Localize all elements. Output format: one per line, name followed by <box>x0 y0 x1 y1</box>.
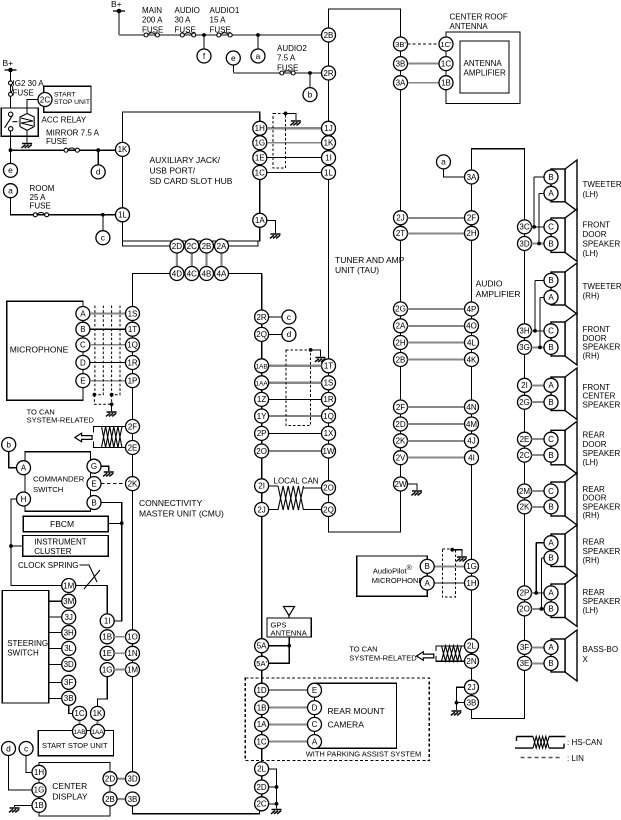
microphone pin B <box>76 322 90 336</box>
svg-text:1A: 1A <box>255 216 265 225</box>
svg-text:2C: 2C <box>40 95 50 104</box>
connector 1C <box>439 57 453 71</box>
shield audiopilot cable <box>442 549 455 597</box>
wire e down <box>232 65 234 73</box>
svg-text:A: A <box>312 737 318 746</box>
wire 1AB-1T <box>269 365 322 367</box>
svg-text:2W: 2W <box>395 480 407 489</box>
svg-text:3E: 3E <box>520 659 530 668</box>
svg-text:2R: 2R <box>256 313 266 322</box>
svg-text:TUNER AND AMPUNIT (TAU): TUNER AND AMPUNIT (TAU) <box>335 255 405 275</box>
wire TAU-AMP link <box>408 457 465 459</box>
connector 2N <box>465 654 479 668</box>
svg-text:1D: 1D <box>256 686 266 695</box>
svg-text:1AA: 1AA <box>256 381 269 388</box>
svg-text:AUDIO115 AFUSE: AUDIO115 AFUSE <box>210 6 240 34</box>
wire 2F to CAN <box>93 427 125 433</box>
svg-text:1S: 1S <box>128 309 138 318</box>
svg-text:e: e <box>231 53 236 63</box>
wire 1Y-1Q <box>269 415 322 417</box>
wire 3B stub <box>457 702 465 704</box>
wire steering stub 3H <box>49 632 62 634</box>
wire amp-speaker link <box>532 506 545 508</box>
connector 3D <box>126 772 140 786</box>
junction tweeter RH A tap <box>538 346 542 350</box>
wire CMU left edge <box>132 274 134 779</box>
speaker pin C <box>544 484 558 498</box>
wire amp-speaker link <box>532 330 545 332</box>
svg-text:2I: 2I <box>258 482 265 491</box>
svg-text:3H: 3H <box>519 327 529 336</box>
speaker pin A <box>544 536 558 550</box>
connector 2R <box>255 310 269 324</box>
wire 1C-1L <box>267 172 322 174</box>
pair bar 2B-4B <box>205 253 207 267</box>
svg-text:MAIN200 AFUSE: MAIN200 AFUSE <box>142 6 163 34</box>
svg-text:2P: 2P <box>520 589 530 598</box>
svg-text:2H: 2H <box>466 229 476 238</box>
speaker pin B <box>544 340 558 354</box>
wire TAU-AMP link <box>408 308 465 310</box>
connector 4C <box>185 267 199 281</box>
pair bar 2B-3B <box>117 798 126 800</box>
connector 3A <box>394 76 408 90</box>
ground 2W <box>411 491 422 495</box>
junction 2C ground <box>275 802 279 806</box>
connector 1C <box>73 706 87 720</box>
connector 1E <box>253 151 267 165</box>
wire shield ground (audiopilot) <box>452 550 462 556</box>
svg-text:E: E <box>91 479 96 488</box>
ground 1B center display <box>9 808 20 812</box>
wire tap to rear RH B <box>541 557 544 559</box>
svg-text:1AB: 1AB <box>256 364 268 371</box>
junction mic shield drain <box>110 402 114 406</box>
svg-text:2E: 2E <box>520 435 530 444</box>
junction c tap <box>101 213 105 217</box>
connector 4J <box>465 434 479 448</box>
speaker pin B <box>544 395 558 409</box>
wire steering stub 3M <box>49 600 62 602</box>
svg-text:2D: 2D <box>256 783 266 792</box>
svg-text:2P: 2P <box>257 429 267 438</box>
boundary WITH PARKING ASSIST SYSTEM <box>245 678 429 761</box>
connector 3H <box>518 324 532 338</box>
svg-text:: LIN: : LIN <box>567 754 584 763</box>
connector 1H <box>465 576 479 590</box>
svg-text:2B: 2B <box>105 795 115 804</box>
svg-text:2K: 2K <box>520 503 530 512</box>
wire 2D stub <box>269 786 277 788</box>
microphone pin C <box>76 338 90 352</box>
svg-text:FRONTCENTERSPEAKER: FRONTCENTERSPEAKER <box>583 383 621 410</box>
svg-text:3B': 3B' <box>395 40 406 49</box>
speaker pin B <box>544 656 558 670</box>
wire 1D-E <box>269 689 308 691</box>
commander pin H <box>17 492 31 506</box>
speaker pin A <box>544 290 558 304</box>
svg-text:4P: 4P <box>467 305 477 314</box>
commander pin B <box>87 496 101 510</box>
svg-text:b: b <box>308 89 313 99</box>
connector 1AA <box>91 724 105 738</box>
junction rear RH B tap <box>540 607 544 611</box>
svg-text:3L: 3L <box>64 644 73 653</box>
svg-text:3B: 3B <box>396 59 406 68</box>
svg-text:ANTENNAAMPLIFIER: ANTENNAAMPLIFIER <box>464 59 506 78</box>
wire 1B-1O <box>114 636 125 638</box>
svg-text:5A: 5A <box>257 642 267 651</box>
junction shield drain (audiopilot) <box>450 548 454 552</box>
svg-text:2D: 2D <box>172 242 182 251</box>
wire to node b <box>309 73 311 88</box>
svg-text:1L: 1L <box>324 168 333 177</box>
connector 1Q <box>126 338 140 352</box>
wire steering stub 3D <box>49 663 62 665</box>
pair bar 2D-3D <box>117 778 126 780</box>
connector 2E <box>518 432 532 446</box>
svg-text:1T: 1T <box>324 362 333 371</box>
fuse AUDIO 30A <box>180 33 195 37</box>
fuse IG2 30A <box>9 81 13 96</box>
svg-text:2H: 2H <box>395 338 405 347</box>
wire 2J to twisted pair <box>269 509 278 511</box>
relay switch contact <box>5 112 19 131</box>
wire 2L ground run <box>269 769 277 809</box>
twisted pair LOCAL CAN <box>278 486 304 510</box>
svg-text:AUDIO30 AFUSE: AUDIO30 AFUSE <box>175 6 200 34</box>
legend LIN symbol <box>521 757 560 759</box>
svg-text:CENTER ROOFANTENNA: CENTER ROOFANTENNA <box>450 13 508 32</box>
wire TAU-AMP link <box>408 423 465 425</box>
camera pin A <box>308 735 322 749</box>
svg-text:3J: 3J <box>64 613 72 622</box>
connector 1Y <box>255 409 269 423</box>
box START STOP UNIT (lower) <box>38 731 113 756</box>
svg-text:A: A <box>548 293 554 302</box>
junction shield drain (cmu-tau) <box>309 348 313 352</box>
svg-text:A: A <box>548 189 554 198</box>
svg-text:e: e <box>8 165 13 175</box>
svg-text:1C: 1C <box>74 709 84 718</box>
camera pin C <box>308 717 322 731</box>
connector 2F <box>126 420 140 434</box>
unit INSTRUMENT CLUSTER <box>23 535 109 556</box>
wire amp-speaker link <box>532 662 545 664</box>
ground 1A <box>270 234 281 238</box>
svg-text:ROOM25 AFUSE: ROOM25 AFUSE <box>30 184 55 211</box>
connector 1B <box>255 701 269 715</box>
wire to node a <box>257 35 259 49</box>
svg-text:1AB: 1AB <box>73 729 85 736</box>
svg-text:1J: 1J <box>324 124 332 133</box>
svg-text:2J: 2J <box>467 683 475 692</box>
svg-text:1C: 1C <box>256 737 266 746</box>
connector 2I <box>255 479 269 493</box>
svg-text:2C: 2C <box>256 800 266 809</box>
steering pin 3B <box>62 691 76 705</box>
ground mic shield <box>106 412 117 416</box>
node b <box>303 88 317 102</box>
connector 1L <box>116 208 130 222</box>
connector 1C' <box>439 37 453 51</box>
svg-text:1T: 1T <box>128 325 137 334</box>
antenna symbol GPS <box>284 607 295 619</box>
junction a tap <box>256 33 260 37</box>
svg-text:CONNECTIVITYMASTER UNIT (CMU): CONNECTIVITYMASTER UNIT (CMU) <box>139 498 224 519</box>
wire 1C-A <box>269 741 308 743</box>
wire b to A <box>9 452 17 468</box>
unit MICROPHONE <box>7 301 83 400</box>
svg-text:B: B <box>548 554 553 563</box>
wire G to ground <box>101 466 109 471</box>
svg-text:B: B <box>548 276 553 285</box>
wire 2W to ground <box>408 484 418 490</box>
connector 2F <box>394 400 408 414</box>
svg-text:3A: 3A <box>467 173 477 182</box>
node c <box>96 231 110 245</box>
camera pin D <box>308 701 322 715</box>
connector 1A <box>253 213 267 227</box>
svg-text:2C: 2C <box>187 242 197 251</box>
speaker TWEETER (LH) <box>551 160 577 211</box>
svg-text:1C: 1C <box>441 59 451 68</box>
audiopilot pin A <box>420 576 434 590</box>
unit AUDIO AMPLIFIER <box>472 149 525 719</box>
wire B-1G audiopilot <box>434 565 464 567</box>
wire TAU-AMP link <box>408 217 465 219</box>
svg-text:2B: 2B <box>202 242 212 251</box>
junction FBCM <box>120 521 124 525</box>
svg-text:MICROPHONE: MICROPHONE <box>10 345 69 355</box>
wire to node d <box>97 150 99 165</box>
connector 4P <box>465 302 479 316</box>
connector 2C <box>518 448 532 462</box>
wire to node f <box>203 35 205 49</box>
wire steering stub 3F <box>49 681 62 683</box>
svg-text:B: B <box>548 605 553 614</box>
clock spring pin 1I <box>100 614 114 628</box>
svg-text:2O: 2O <box>256 447 267 456</box>
connector 2J <box>255 503 269 517</box>
wire gps to 5A' <box>269 637 290 663</box>
junction instrument cluster tap <box>9 544 13 548</box>
connector 2B <box>322 28 336 42</box>
wire 1G-1K <box>267 142 322 144</box>
connector 2D <box>103 772 117 786</box>
connector 1C <box>255 735 269 749</box>
relay coil <box>20 114 34 131</box>
svg-text:1H: 1H <box>255 124 265 133</box>
svg-text:2G: 2G <box>395 305 406 314</box>
connector 2H <box>394 336 408 350</box>
wire steering stub 3L <box>49 647 62 649</box>
wire TAU-AMP link <box>408 342 465 344</box>
connector 2D <box>170 239 184 253</box>
connector 1B <box>32 798 46 812</box>
wire FBCM tap <box>108 522 122 524</box>
svg-text:1Y: 1Y <box>257 412 267 421</box>
speaker REAR SPEAKER (RH) <box>551 525 577 576</box>
connector 2C <box>185 239 199 253</box>
ground shield (audiopilot) <box>456 557 467 561</box>
node c <box>282 310 296 324</box>
wire 1B to ground <box>15 805 32 807</box>
speaker pin A <box>544 586 558 600</box>
wire clock spring tick <box>84 570 100 589</box>
wire 1G to 1K <box>98 677 108 707</box>
microphone pin D <box>76 356 90 370</box>
svg-text:B: B <box>80 325 85 334</box>
svg-text:3C: 3C <box>519 223 529 232</box>
fuse AUDIO1 15A <box>217 33 232 37</box>
steering pin 3J <box>62 610 76 624</box>
junction gps <box>287 644 291 648</box>
svg-text:1AA: 1AA <box>91 729 104 736</box>
svg-text:FUSE: FUSE <box>46 137 67 146</box>
connector 2L <box>465 639 479 653</box>
connector 4M <box>465 417 479 431</box>
svg-text:1B: 1B <box>102 633 112 642</box>
wire 1A-C <box>269 723 308 725</box>
speaker pin C <box>544 324 558 338</box>
svg-text:2Q: 2Q <box>323 505 334 514</box>
svg-text:2B: 2B <box>324 31 334 40</box>
svg-text:1Q: 1Q <box>127 341 138 350</box>
svg-text:2Q: 2Q <box>256 330 267 339</box>
svg-text:C: C <box>548 487 554 496</box>
speaker pin B <box>544 237 558 251</box>
svg-text:d: d <box>96 167 101 177</box>
svg-text:3G: 3G <box>519 343 530 352</box>
wire amp-speaker link <box>532 401 545 403</box>
connector 2C <box>255 797 269 811</box>
wire tap vertical rear RH B <box>540 558 542 609</box>
clock spring pin 1G <box>100 663 114 677</box>
svg-text:FRONTDOORSPEAKER(RH): FRONTDOORSPEAKER(RH) <box>583 325 621 360</box>
svg-text:1R: 1R <box>127 358 137 367</box>
connector 1C <box>253 166 267 180</box>
svg-text:2R: 2R <box>323 69 333 78</box>
junction mic shield R <box>110 393 114 397</box>
wire 2N to CAN <box>436 656 465 661</box>
fuse MIRROR 7.5A <box>64 148 79 152</box>
node e <box>226 51 240 65</box>
svg-text:d: d <box>6 743 11 753</box>
connector 5A' <box>255 656 269 670</box>
svg-text:2O: 2O <box>519 605 530 614</box>
svg-text:3F: 3F <box>64 678 73 687</box>
wire 3B'-1C' (dashed) <box>408 43 440 45</box>
wire TAU-AMP link <box>408 359 465 361</box>
svg-text:1M: 1M <box>63 581 74 590</box>
svg-text:B: B <box>548 659 553 668</box>
steering pin 3D <box>62 657 76 671</box>
connector 1Q <box>322 409 336 423</box>
connector 2K <box>394 434 408 448</box>
svg-text:AudioPilot®: AudioPilot® <box>373 564 413 576</box>
wire c to 1H <box>26 756 32 773</box>
connector 2A <box>394 319 408 333</box>
connector 1R <box>322 392 336 406</box>
connector 2L <box>255 762 269 776</box>
svg-text:2F: 2F <box>396 403 405 412</box>
svg-text:TO CANSYSTEM-RELATED: TO CANSYSTEM-RELATED <box>27 408 95 425</box>
connector 1P <box>126 374 140 388</box>
twisted pair CAN (amp) <box>442 646 462 661</box>
ground amp 2J/3B <box>451 711 462 715</box>
svg-text:1K: 1K <box>93 709 103 718</box>
svg-text:2F: 2F <box>467 214 476 223</box>
connector 3E <box>518 656 532 670</box>
wire amp-speaker link <box>532 346 545 348</box>
wire tap to tweeter RH B <box>535 279 544 281</box>
svg-text:1I: 1I <box>104 617 111 626</box>
junction tweeter RH B tap <box>533 329 537 333</box>
wire 1AA-1S <box>269 382 322 384</box>
wire main bus <box>119 34 322 36</box>
fuse MAIN 200A <box>144 33 159 37</box>
svg-text:5A': 5A' <box>256 659 267 668</box>
wire 3A-1B <box>408 82 440 84</box>
unit FBCM <box>23 516 108 532</box>
svg-text:CLOCK SPRING: CLOCK SPRING <box>18 561 78 570</box>
svg-text:: HS-CAN: : HS-CAN <box>567 738 602 747</box>
node a <box>437 155 451 169</box>
ground camera feed <box>271 810 282 814</box>
svg-text:C: C <box>312 720 318 729</box>
svg-text:3M: 3M <box>63 597 74 606</box>
unit COMMANDER SWITCH <box>25 452 91 512</box>
connector 5A <box>255 639 269 653</box>
connector 2G <box>394 302 408 316</box>
wire steering stub 3J <box>49 616 62 618</box>
svg-text:FRONTDOORSPEAKER(LH): FRONTDOORSPEAKER(LH) <box>583 220 621 258</box>
wire room fuse feed <box>11 198 116 215</box>
svg-text:AUXILIARY JACK/USB PORT/SD CAR: AUXILIARY JACK/USB PORT/SD CARD SLOT HUB <box>150 155 233 186</box>
connector 3D <box>518 237 532 251</box>
shield mic cable dashed lines <box>94 306 120 405</box>
svg-text:3B: 3B <box>467 698 477 707</box>
connector 1AA <box>255 376 269 390</box>
svg-text:LOCAL CAN: LOCAL CAN <box>274 477 319 486</box>
connector 1G <box>465 559 479 573</box>
svg-text:2E: 2E <box>128 443 138 452</box>
wire 3B-1C <box>408 63 440 65</box>
steering pin 3H <box>62 626 76 640</box>
svg-text:4C: 4C <box>187 269 197 278</box>
connector 4D <box>170 267 184 281</box>
twisted pair CAN (CMU) <box>102 427 123 448</box>
connector 1G <box>32 783 46 797</box>
svg-text:1H: 1H <box>466 579 476 588</box>
svg-text:BASS-BOX: BASS-BOX <box>583 645 619 664</box>
wire E-1P <box>90 380 126 382</box>
connector 1Z <box>255 392 269 406</box>
svg-text:TWEETER(LH): TWEETER(LH) <box>583 180 621 199</box>
connector 1M clock spring <box>62 579 76 593</box>
svg-text:3D: 3D <box>519 239 529 248</box>
connector 1K <box>322 136 336 150</box>
wire steering stub 3B <box>49 697 62 699</box>
svg-text:4J: 4J <box>467 437 475 446</box>
connector 2B <box>394 353 408 367</box>
svg-text:IG2 30 A: IG2 30 A <box>13 79 45 88</box>
svg-text:3H: 3H <box>64 628 74 637</box>
wire 1E-1N <box>114 652 125 654</box>
svg-text:REAR MOUNTCAMERA: REAR MOUNTCAMERA <box>328 706 385 730</box>
shield cmu-tau cable <box>286 350 311 425</box>
